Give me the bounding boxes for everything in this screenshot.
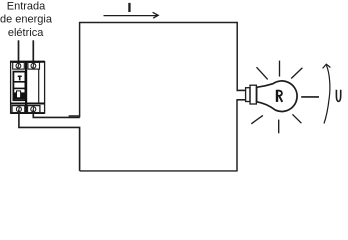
lamp base: wide collar <box>250 85 256 104</box>
breaker toggle window: divider above handle <box>13 87 25 89</box>
circuit breaker: module divider <box>25 62 27 113</box>
current arrow I: shaft <box>104 15 158 17</box>
lamp ray NW <box>257 67 268 79</box>
lamp ray NE <box>291 68 302 79</box>
breaker screw: top-right <box>31 63 36 68</box>
lamp glass envelope (receptor) <box>257 81 298 112</box>
wire: supply line R (to breaker top-right terminal) <box>32 40 34 61</box>
wire: supply line L (to breaker top-left terminal) <box>18 40 20 61</box>
lamp ray SW <box>251 115 263 123</box>
lamp ray E <box>301 96 319 98</box>
wire: breaker bottom-left terminal, down then right then down to loop bottom <box>19 110 80 171</box>
wire: stub to lamp base (lower) <box>237 99 246 101</box>
breaker terminal box: bottom-right <box>28 106 40 113</box>
breaker toggle: handle <box>17 91 21 98</box>
lamp ray SE <box>292 114 301 123</box>
breaker label T <box>18 76 22 81</box>
voltage arrow U: arc <box>324 65 330 123</box>
wire: loop bottom edge <box>80 170 238 172</box>
current arrow I: head <box>153 12 159 18</box>
circuit breaker: thick bottom edge <box>11 112 45 114</box>
svg-text:elétrica: elétrica <box>8 27 44 39</box>
breaker screw: bottom-right <box>31 107 36 112</box>
circuit breaker T: outer body <box>11 62 45 113</box>
svg-text:Entrada: Entrada <box>7 1 46 13</box>
voltage arrow U: head <box>323 64 331 68</box>
breaker terminal box: top-right <box>28 62 40 69</box>
label I <box>128 3 130 12</box>
label R (inside lamp) <box>277 90 282 102</box>
wire: loop top edge <box>79 22 237 24</box>
wire: jog segment at junction <box>69 115 80 117</box>
wire: stub to lamp base (upper) <box>237 89 245 91</box>
svg-text:de energia: de energia <box>0 14 53 26</box>
wire: loop right edge upper <box>236 22 238 91</box>
breaker toggle window <box>13 72 25 101</box>
breaker toggle: black band <box>14 92 25 99</box>
lamp base: narrow contact <box>246 88 250 102</box>
breaker terminal box: top-left <box>13 62 25 69</box>
lamp ray S <box>278 120 280 134</box>
breaker toggle window: divider under T <box>13 81 25 83</box>
wire: loop left edge (upper) <box>79 23 81 118</box>
wire: loop right edge lower <box>236 99 238 171</box>
label: Entrada de energia eletrica <box>0 1 53 40</box>
lamp ray N <box>279 61 281 77</box>
circuit breaker: section divider line <box>11 103 45 105</box>
breaker terminal box: bottom-left <box>12 106 25 113</box>
circuit breaker: thick top edge <box>10 61 45 63</box>
breaker screw: bottom-left <box>16 107 21 112</box>
breaker right module inner line <box>38 69 40 103</box>
label U <box>336 90 340 102</box>
breaker screw: top-left <box>16 63 21 68</box>
wire: breaker bottom-right terminal to loop left edge <box>33 110 80 117</box>
